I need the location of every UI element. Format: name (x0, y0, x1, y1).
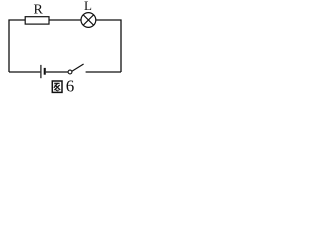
lamp L1 circle (81, 13, 96, 28)
battery B1 long thin plate (positive) (40, 65, 42, 78)
svg-text:R: R (34, 3, 44, 18)
wire: resistor to lamp (49, 19, 81, 21)
switch S1 lever (72, 64, 84, 71)
resistor R1 body (25, 17, 49, 24)
wire: bottom-right corner to switch (86, 71, 121, 73)
svg-text:L: L (84, 0, 92, 13)
svg-text:6: 6 (66, 77, 75, 96)
caption glyph 图 (drawn) (52, 81, 62, 92)
wire: switch to battery (46, 71, 68, 73)
wire: lamp to top-right corner and down right side (96, 20, 121, 72)
battery B1 short thick plate (negative) (44, 68, 46, 75)
wire: battery to bottom-left corner (9, 71, 40, 73)
lamp cross stroke 1 (83, 15, 93, 25)
switch pivot contact (68, 70, 72, 74)
lamp cross stroke 2 (83, 15, 93, 25)
wire top-left: corner to resistor (9, 20, 25, 72)
